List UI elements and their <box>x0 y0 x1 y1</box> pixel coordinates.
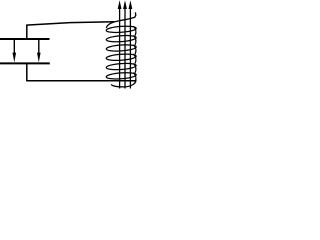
flux arrow 3 head <box>129 0 133 9</box>
coil crossover 5-6 <box>133 63 136 73</box>
coil crossover 6-7 <box>133 73 136 83</box>
flux line 2 <box>124 8 126 89</box>
wire: left riser up from top bus to top wire <box>26 25 28 40</box>
arrow 1 shaft (left discharge arrow) <box>13 40 15 55</box>
coil crossover 4-5 <box>133 54 136 64</box>
coil turn 1 <box>106 25 136 33</box>
arrow 2 head <box>37 53 41 63</box>
coil turn 4 <box>106 53 136 61</box>
coil crossover 3-4 <box>133 45 136 55</box>
flux arrow 2 head <box>123 0 127 9</box>
spark gap bottom bus bar <box>0 62 50 64</box>
coil terminal / lead-in turn <box>106 12 136 28</box>
coil crossover 2-3 <box>133 35 136 45</box>
flux arrow 1 head <box>118 0 122 9</box>
coil turn 6 <box>106 72 136 80</box>
arrow 1 head <box>13 53 17 63</box>
coil turn 2 <box>106 35 136 43</box>
flux line 1 <box>119 8 121 89</box>
spark gap top bus bar <box>0 38 50 40</box>
coil final partial turn <box>111 80 136 87</box>
coil turn 5 <box>106 63 136 71</box>
wire: left riser down from bottom bus to bottom wire <box>26 63 28 80</box>
flux line 3 <box>129 8 131 89</box>
coil turn 3 <box>106 44 136 52</box>
wire: bottom horizontal from riser to coil bottom <box>26 80 135 82</box>
arrow 2 shaft (right discharge arrow) <box>38 40 40 55</box>
wire: top horizontal from spark gap riser to coil <box>26 22 114 25</box>
coil crossover 1-2 <box>133 26 136 36</box>
